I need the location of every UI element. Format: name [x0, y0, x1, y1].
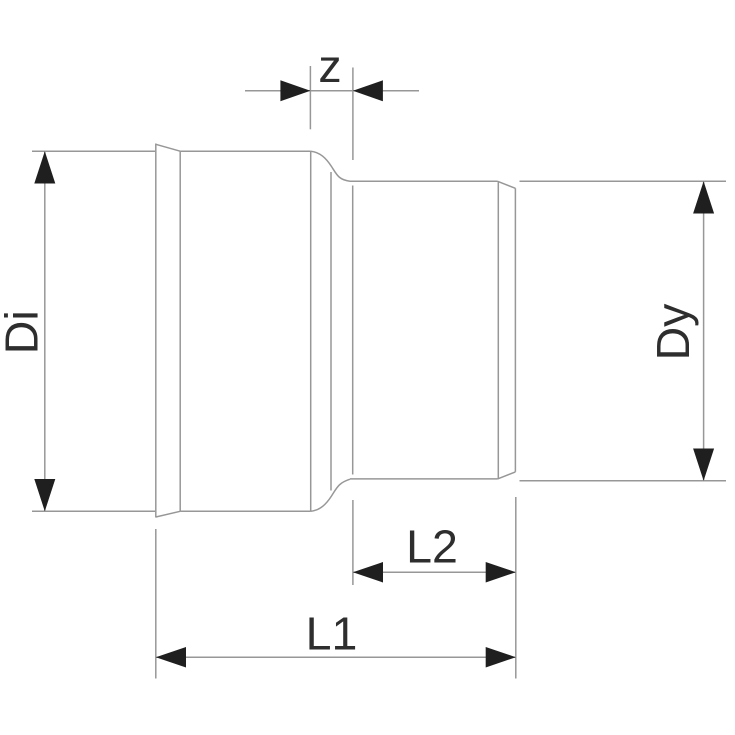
wire bell mouth end face — [155, 144, 157, 518]
wire spigot end face — [514, 188, 516, 472]
node z arrow right — [353, 80, 383, 101]
node L1 arrow right — [486, 647, 516, 668]
node z arrow left — [280, 80, 310, 101]
wire L1 L2 extension right — [515, 497, 517, 679]
svg-text:z: z — [318, 40, 341, 92]
wire Di extension top — [32, 150, 155, 152]
svg-text:L1: L1 — [306, 608, 358, 660]
wire inner transition line — [330, 172, 332, 491]
wire z dimension line — [245, 90, 419, 92]
node L2 arrow right — [486, 562, 516, 583]
wire Dy dimension line — [703, 181, 705, 480]
svg-text:L2: L2 — [406, 521, 458, 573]
wire large pipe top — [180, 150, 311, 152]
wire spigot chamfer top — [498, 181, 516, 188]
wire L2 dimension line — [353, 571, 516, 573]
wire z extension line right — [352, 68, 354, 161]
wire small pipe top — [350, 180, 498, 182]
wire small pipe bottom — [350, 478, 498, 480]
wire z extension line left — [309, 66, 311, 129]
wire L1 extension left — [155, 529, 157, 679]
node L1 arrow left — [156, 647, 186, 668]
wire bell lip bottom slant — [156, 511, 180, 517]
node Dy arrow bottom — [693, 449, 714, 481]
wire spigot chamfer ring — [497, 181, 499, 479]
node Di arrow top — [34, 151, 55, 183]
wire bottom shoulder fillet — [311, 479, 350, 511]
node Dy arrow top — [693, 181, 714, 213]
wire socket depth line — [310, 151, 312, 511]
svg-text:Dy: Dy — [647, 303, 699, 361]
wire L2 extension left — [352, 500, 354, 585]
node Di arrow bottom — [34, 479, 55, 511]
wire L1 dimension line — [156, 656, 516, 658]
wire spigot chamfer bottom — [498, 472, 516, 479]
wire bell lip top slant — [156, 144, 180, 151]
wire Di extension bottom — [32, 510, 155, 512]
wire Di dimension line — [44, 151, 46, 511]
wire top shoulder fillet — [311, 151, 350, 181]
node L2 arrow left — [353, 562, 383, 583]
wire large pipe bottom — [180, 510, 311, 512]
wire transition end line — [352, 186, 354, 475]
svg-text:Di: Di — [0, 310, 48, 354]
wire Dy extension top — [520, 180, 727, 182]
wire bell ring line — [179, 151, 181, 511]
wire Dy extension bottom — [520, 480, 727, 482]
